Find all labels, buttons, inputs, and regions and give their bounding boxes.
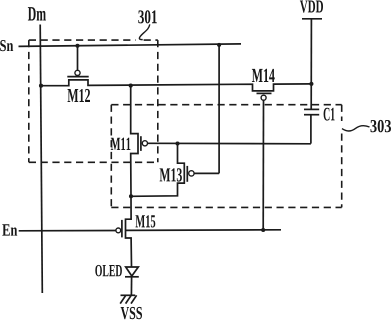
transistor M14 gate bubble	[261, 95, 266, 100]
node junction dot M11 drain on node-B wire	[129, 84, 133, 88]
transistor M13 drain lead + channel hump + source wire to node C	[131, 144, 184, 197]
dashed box 301 right edge	[157, 40, 159, 162]
transistor M11 gate bubble	[142, 141, 147, 146]
label 301	[138, 10, 157, 23]
label En	[2, 224, 17, 235]
wire C1 bottom lead down to M11 gate wire	[310, 115, 312, 144]
wire M13 gate horizontal to riser	[194, 172, 219, 174]
capacitor C1 bottom plate	[304, 114, 319, 116]
transistor M11 drain lead + channel hump + source lead	[131, 86, 138, 197]
dashed box 301 top edge	[29, 39, 158, 41]
dashed box 303 bottom edge	[111, 206, 341, 208]
label M14	[252, 69, 275, 82]
label VSS	[121, 307, 142, 319]
dashed box 303 left edge	[110, 105, 112, 208]
label C1	[324, 108, 335, 121]
diode OLED triangle	[126, 267, 139, 276]
wire M11 gate to C1 bottom	[148, 142, 311, 145]
ground VSS bar	[121, 294, 136, 296]
node junction dot M13 riser on Sn	[217, 43, 221, 47]
node junction dot Dm to node-B wire	[39, 84, 43, 88]
label M12	[68, 89, 90, 102]
wire Dm vertical line	[40, 25, 42, 294]
transistor M14 gate bar	[257, 92, 272, 94]
leader squiggle for 301	[139, 24, 149, 39]
transistor M13 gate bar	[186, 166, 188, 182]
wire OLED to ground	[130, 277, 132, 295]
node junction dot M14 gate on En	[261, 228, 265, 232]
transistor M15 gate bar	[121, 220, 123, 238]
label VDD	[300, 0, 323, 12]
wire En horizontal line left of M15	[19, 230, 116, 232]
label Sn	[0, 40, 13, 51]
transistor M12 gate bar	[67, 76, 88, 78]
dashed box 301 bottom edge	[29, 161, 158, 163]
node junction dot M12 gate on Sn	[75, 44, 79, 48]
wire VDD stem down to C1 top plate	[310, 19, 312, 110]
transistor M11 gate bar	[140, 136, 142, 151]
capacitor C1 top plate	[304, 108, 319, 110]
power VDD bar	[302, 18, 322, 20]
label Dm	[28, 7, 46, 20]
wire En horizontal line right of M15	[126, 229, 282, 232]
dashed box 303 right edge	[341, 105, 343, 208]
node junction dot M13 drain on M11 gate wire	[175, 141, 179, 145]
label 303	[370, 120, 391, 132]
diode OLED cathode bar	[125, 276, 139, 278]
ground VSS hatch strokes	[120, 295, 136, 303]
dashed box 303 top edge	[111, 104, 341, 106]
dashed box 301 left edge	[28, 40, 30, 162]
transistor M15 drain lead + channel hump + source lead	[126, 196, 132, 266]
wire node-B horizontal run with M12 and M14 channel humps	[41, 80, 311, 91]
label M13	[160, 168, 182, 181]
label M15	[135, 215, 155, 227]
label M11	[111, 138, 131, 150]
wire Sn horizontal line	[19, 44, 242, 47]
wire M13 gate riser up to Sn	[218, 45, 220, 173]
leader squiggle for 303	[342, 126, 370, 131]
transistor M15 gate bubble	[116, 228, 121, 233]
label OLED	[95, 265, 122, 277]
transistor M13 gate bubble	[189, 171, 194, 176]
transistor M12 gate bubble	[75, 70, 80, 75]
transistor M12 gate lead from Sn	[77, 46, 79, 70]
transistor M14 gate lead down to En	[262, 100, 264, 230]
node junction dot VDD stem on node-B wire	[309, 82, 313, 86]
node junction dot node C	[129, 194, 133, 198]
